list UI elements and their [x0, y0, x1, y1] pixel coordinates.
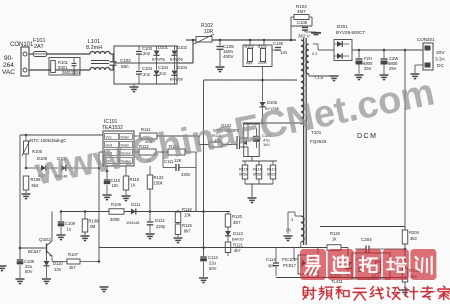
- svg-text:4k7: 4k7: [69, 265, 76, 270]
- svg-text:D104: D104: [177, 65, 188, 70]
- svg-text:13V: 13V: [54, 267, 62, 272]
- svg-text:PIC101: PIC101: [282, 257, 297, 262]
- svg-text:D201: D201: [337, 24, 348, 29]
- svg-text:50V: 50V: [25, 269, 33, 274]
- svg-text:BAV20: BAV20: [232, 238, 244, 242]
- svg-text:R204: R204: [409, 230, 420, 235]
- svg-text:362 V: 362 V: [298, 34, 310, 39]
- svg-text:DCM: DCM: [357, 133, 377, 140]
- svg-text:3M: 3M: [90, 224, 96, 229]
- svg-text:BYW56: BYW56: [170, 58, 183, 62]
- svg-text:C102: C102: [120, 58, 131, 63]
- svg-text:25V: 25V: [364, 66, 372, 71]
- svg-text:1k: 1k: [332, 237, 337, 242]
- svg-text:C204: C204: [361, 237, 372, 242]
- svg-text:13k: 13k: [184, 213, 192, 218]
- svg-text:2n2: 2n2: [143, 72, 151, 77]
- svg-text:20V: 20V: [436, 50, 445, 56]
- svg-text:TEA1532: TEA1532: [102, 125, 123, 131]
- svg-text:68n: 68n: [121, 64, 129, 69]
- svg-text:BYW56: BYW56: [152, 58, 165, 62]
- svg-text:0R5L: 0R5L: [253, 173, 262, 177]
- svg-text:Q102: Q102: [39, 237, 51, 243]
- svg-text:300E: 300E: [110, 217, 120, 222]
- svg-text:FQ2625: FQ2625: [310, 139, 327, 144]
- svg-text:3: 3: [291, 217, 294, 222]
- svg-text:R108: R108: [89, 219, 100, 224]
- svg-text:2n2: 2n2: [143, 51, 151, 56]
- svg-text:R109: R109: [111, 202, 122, 207]
- svg-text:PC817: PC817: [283, 263, 296, 268]
- svg-text:400V: 400V: [223, 54, 234, 59]
- svg-text:C104: C104: [142, 66, 153, 71]
- svg-text:BYW56: BYW56: [170, 78, 183, 82]
- svg-text:R118: R118: [182, 207, 192, 212]
- svg-text:8.2mH: 8.2mH: [86, 45, 102, 51]
- svg-text:(5): (5): [286, 227, 292, 232]
- svg-text:C114: C114: [266, 257, 276, 262]
- svg-text:R115: R115: [239, 168, 248, 172]
- svg-text:90-: 90-: [4, 55, 13, 62]
- svg-text:R116: R116: [253, 168, 262, 172]
- svg-text:C108: C108: [297, 20, 308, 25]
- svg-text:1N4148: 1N4148: [126, 221, 139, 225]
- svg-text:CON201: CON201: [417, 37, 435, 42]
- svg-text:0R5L: 0R5L: [239, 173, 248, 177]
- svg-text:eq6: eq6: [246, 61, 252, 65]
- svg-text:R110: R110: [130, 177, 140, 182]
- svg-text:D113: D113: [233, 231, 243, 236]
- svg-text:2M2: 2M2: [62, 70, 71, 75]
- svg-text:150k: 150k: [154, 181, 164, 186]
- svg-text:330n: 330n: [71, 70, 81, 75]
- svg-text:4E7: 4E7: [233, 220, 241, 225]
- svg-text:2n2: 2n2: [159, 71, 167, 76]
- svg-text:R122: R122: [154, 175, 165, 180]
- svg-text:C113: C113: [208, 255, 218, 260]
- svg-text:25V: 25V: [389, 66, 397, 71]
- svg-text:1K: 1K: [131, 183, 136, 188]
- svg-text:0R22: 0R22: [267, 173, 276, 177]
- svg-text:3.3A: 3.3A: [435, 57, 446, 63]
- svg-text:R119: R119: [182, 223, 192, 228]
- svg-text:R103: R103: [245, 45, 254, 49]
- svg-text:NTC 100k/25degC: NTC 100k/25degC: [30, 138, 66, 143]
- svg-text:R120: R120: [232, 214, 243, 219]
- svg-text:10n: 10n: [112, 183, 120, 188]
- svg-text:0.2: 0.2: [312, 52, 317, 56]
- svg-text:22u: 22u: [209, 261, 217, 266]
- svg-text:4M7: 4M7: [297, 9, 306, 14]
- svg-text:10R: 10R: [204, 29, 214, 35]
- svg-text:R121: R121: [233, 243, 244, 248]
- svg-text:220n: 220n: [181, 172, 191, 177]
- svg-text:C109: C109: [65, 221, 76, 226]
- svg-text:BC547: BC547: [28, 249, 41, 254]
- svg-text:4k7: 4k7: [234, 248, 241, 253]
- svg-text:R120: R120: [330, 231, 341, 236]
- svg-text:D102: D102: [177, 45, 188, 50]
- svg-text:220K: 220K: [258, 61, 267, 65]
- svg-text:BYV29-500CT: BYV29-500CT: [336, 30, 365, 35]
- svg-text:D110: D110: [53, 261, 63, 266]
- svg-text:264: 264: [3, 62, 14, 69]
- svg-text:C140: C140: [273, 41, 284, 46]
- svg-text:50V: 50V: [209, 266, 217, 271]
- svg-text:R104: R104: [258, 45, 267, 49]
- svg-text:3k3: 3k3: [410, 236, 417, 241]
- svg-text:2AT: 2AT: [34, 44, 44, 50]
- svg-text:D111: D111: [131, 202, 141, 207]
- svg-text:D112: D112: [155, 218, 165, 223]
- svg-text:1u: 1u: [67, 227, 72, 232]
- svg-text:7,1,5: 7,1,5: [314, 75, 324, 80]
- svg-text:VAC: VAC: [2, 69, 15, 76]
- svg-text:13n: 13n: [280, 50, 288, 55]
- svg-text:R117: R117: [267, 168, 276, 172]
- svg-text:C104: C104: [158, 65, 169, 70]
- svg-text:D101: D101: [158, 45, 169, 50]
- svg-text:220p: 220p: [156, 224, 166, 229]
- svg-text:R107: R107: [68, 252, 79, 257]
- svg-text:8k7: 8k7: [184, 229, 191, 234]
